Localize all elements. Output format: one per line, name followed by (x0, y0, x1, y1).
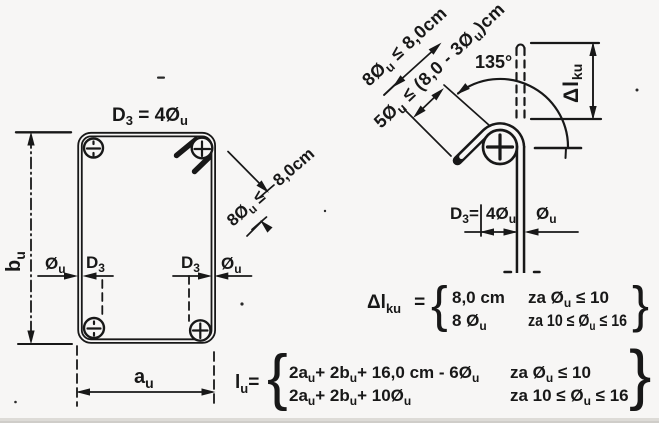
svg-text:}: } (632, 276, 649, 333)
a_u dimension line (79, 391, 212, 393)
corner bar circle bottom-right (190, 320, 210, 340)
cross marks in circles (87, 142, 210, 339)
extension line at bend start (444, 85, 490, 126)
svg-text:za 10 ≤ Øu ≤ 16: za 10 ≤ Øu ≤ 16 (528, 311, 627, 333)
corner bar circle top-left (84, 138, 212, 341)
135 degree arc (458, 79, 568, 147)
svg-text:}: } (629, 337, 651, 412)
hook bar: wrap + extension (black body) (458, 127, 521, 161)
small cap on dashed extension (517, 45, 525, 50)
svg-text:D3 = 4Øu: D3 = 4Øu (112, 105, 188, 128)
dashed leg extension above bend (517, 48, 525, 122)
speck dash (157, 77, 165, 79)
a_u dimension: dashed extension lines (76, 346, 78, 406)
svg-text:{: { (267, 343, 288, 412)
extension line at hook tip (404, 109, 451, 156)
svg-text:135°: 135° (475, 52, 512, 72)
dim arrow 50phi (416, 91, 441, 115)
corner bar circle bottom-left (84, 318, 104, 338)
dashed extension at circle edge left (101, 280, 103, 318)
corner bar circle top-right (192, 138, 213, 159)
speck dot (240, 302, 243, 305)
scan edge shading bottom (0, 418, 659, 423)
speck dot (636, 89, 639, 92)
phi_u / D3 annotation right side (173, 276, 252, 321)
dim arrow phi_u right (528, 231, 578, 233)
b_u extension line bottom (18, 343, 72, 345)
leg break marks (505, 271, 540, 274)
svg-text:za 10 ≤ Øu ≤ 16: za 10 ≤ Øu ≤ 16 (510, 386, 629, 408)
oblique tick 1 (260, 185, 275, 198)
longitudinal bar circle (483, 130, 517, 164)
delta l_ku dimension: top line (531, 42, 599, 44)
D3 = 4phi tick line (480, 205, 482, 236)
cross in circle (488, 135, 513, 159)
leg white core (518, 146, 523, 274)
hook bar white core (462, 127, 521, 157)
hook end 2 at top-right corner (195, 158, 210, 172)
leader line lower (247, 221, 263, 237)
stirrup outline (double line drawn as thick black + white core) (80, 135, 213, 342)
b_u dash-dot dimension line (30, 137, 32, 340)
delta l_ku dimension line (592, 45, 594, 117)
extension line at top of bend (531, 118, 601, 120)
speck dot (324, 210, 326, 212)
oblique tick 2 (252, 217, 267, 230)
phi_u / D3 annotation left side (38, 276, 113, 318)
b_u dimension: extension line top (16, 131, 71, 133)
dim arrows 4phi (465, 231, 515, 233)
speck dot (14, 401, 17, 404)
leader line for 8phi dim (upper) (228, 152, 274, 237)
leg (black body) (516, 146, 526, 273)
dim arrow 8phi (396, 46, 438, 84)
svg-text:{: { (431, 277, 448, 333)
horizontal reference line at bar centre level (535, 147, 581, 150)
hook end 1 at top-right corner (inside, pointing down-left) (177, 140, 197, 156)
small tick at 8phi lower end (384, 80, 400, 95)
svg-text:8,0 cm: 8,0 cm (452, 288, 505, 307)
svg-text:2au+ 2bu+ 16,0 cm - 6Øu: 2au+ 2bu+ 16,0 cm - 6Øu (289, 363, 479, 385)
dashed extension at circle edge right (188, 276, 190, 321)
